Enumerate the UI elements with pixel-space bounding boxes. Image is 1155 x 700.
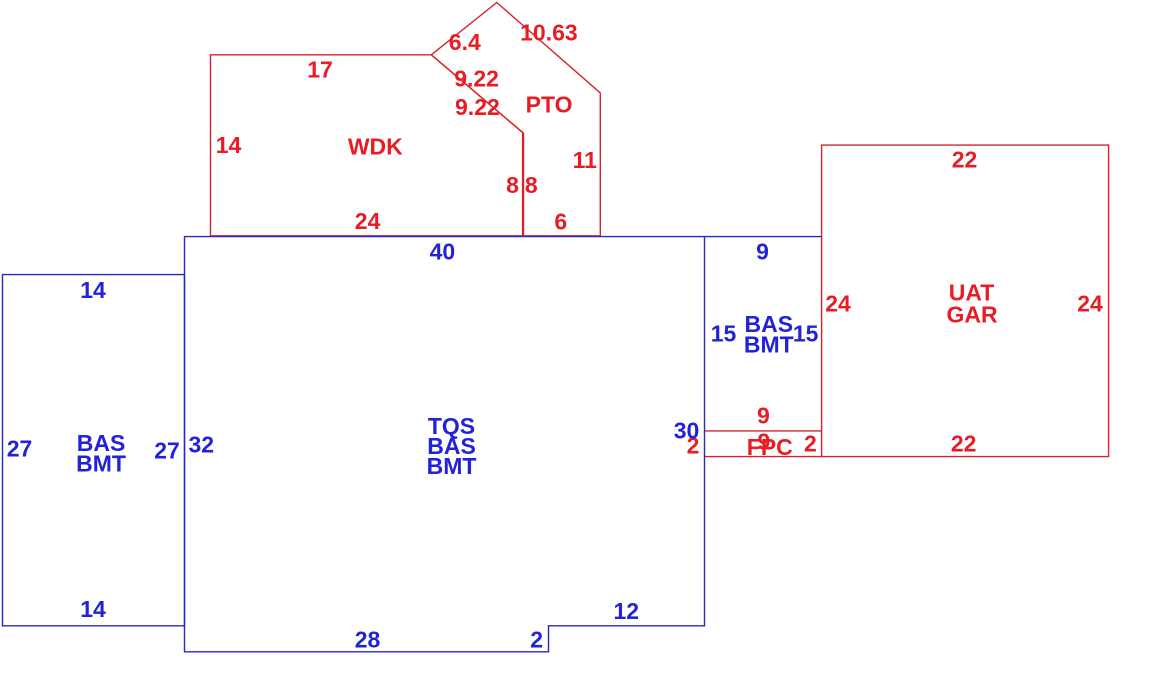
svg-text:28: 28 [355,626,381,652]
svg-text:2: 2 [530,626,543,652]
svg-text:17: 17 [307,57,333,83]
right section top edge [705,236,822,238]
svg-text:15: 15 [711,321,737,347]
svg-text:8: 8 [525,172,538,198]
svg-text:9.22: 9.22 [455,94,500,120]
svg-text:27: 27 [7,436,33,462]
svg-text:9: 9 [757,403,770,429]
porch FPC outline [705,431,822,457]
svg-text:WDK: WDK [348,134,403,160]
svg-text:24: 24 [1077,291,1103,317]
svg-text:2: 2 [804,431,817,457]
svg-text:BMT: BMT [76,451,126,477]
svg-text:FPC: FPC [747,434,793,460]
svg-text:14: 14 [216,132,242,158]
svg-text:11: 11 [573,147,598,173]
svg-text:14: 14 [80,277,106,303]
svg-text:6: 6 [554,209,567,235]
svg-text:12: 12 [614,598,640,624]
wood deck WDK outline [211,55,523,236]
svg-text:8: 8 [506,172,519,198]
svg-text:10.63: 10.63 [520,20,578,46]
svg-text:GAR: GAR [946,302,998,328]
svg-text:32: 32 [189,432,215,458]
svg-text:40: 40 [430,238,456,264]
svg-text:6.4: 6.4 [449,29,481,55]
svg-text:15: 15 [793,321,819,347]
svg-text:30: 30 [674,418,700,444]
main house outline TQS BAS BMT [185,237,705,652]
svg-text:22: 22 [951,431,977,457]
svg-text:BMT: BMT [427,453,477,479]
svg-text:27: 27 [154,438,180,464]
svg-text:PTO: PTO [526,92,573,118]
svg-text:BMT: BMT [744,332,794,358]
svg-text:14: 14 [80,596,106,622]
left basement rect BAS BMT [3,275,185,626]
svg-text:9.22: 9.22 [454,65,499,91]
svg-text:24: 24 [355,208,381,234]
svg-text:24: 24 [825,291,851,317]
patio PTO outline [431,3,600,236]
svg-text:22: 22 [952,146,978,172]
garage UAT GAR outline [822,145,1109,457]
